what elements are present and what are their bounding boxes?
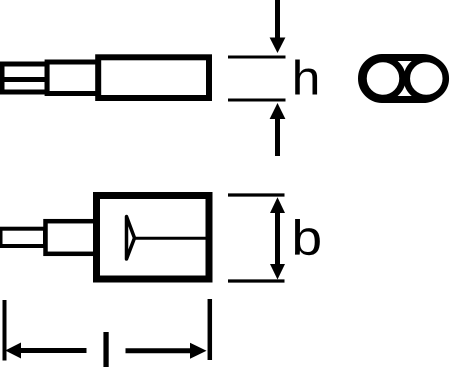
svg-text:h: h: [292, 51, 321, 105]
svg-text:b: b: [291, 211, 322, 265]
svg-text:l: l: [99, 324, 112, 377]
